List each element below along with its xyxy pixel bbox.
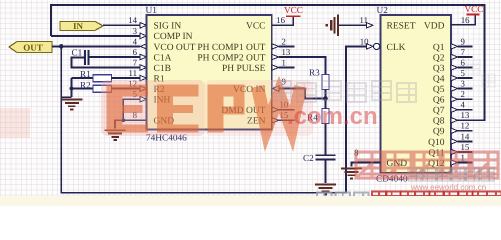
pin number 16 U2: [461, 15, 470, 25]
pin number 5: [133, 89, 138, 99]
pin number 8 U2: [354, 147, 359, 157]
svg-text:5: 5: [461, 68, 466, 78]
svg-text:6: 6: [133, 47, 138, 57]
svg-text:7: 7: [461, 47, 466, 57]
wire OUT to VCO OUT: [52, 45, 140, 47]
svg-text:15: 15: [461, 142, 470, 152]
watermark fake glyphs: [101, 60, 501, 207]
svg-text:COMP IN: COMP IN: [154, 32, 193, 42]
pin number 16: [276, 15, 285, 25]
svg-text:3: 3: [461, 79, 466, 89]
pin number 10 CLK: [360, 37, 369, 47]
svg-text:3: 3: [133, 26, 138, 36]
svg-text:16: 16: [276, 15, 285, 25]
svg-text:Q9: Q9: [433, 127, 445, 137]
svg-text:OUT: OUT: [23, 43, 43, 53]
svg-text:Q10: Q10: [428, 138, 445, 148]
pin 6 arrow: [140, 54, 147, 59]
ground U2 GND: [341, 168, 362, 180]
pin 14 arrow: [140, 23, 147, 28]
svg-text:4: 4: [133, 36, 138, 46]
wire IN to SIG IN: [103, 24, 140, 26]
wire R2 lead left: [72, 88, 94, 90]
pin 11 arrow: [140, 75, 147, 80]
label R1: [80, 69, 91, 79]
svg-text:2: 2: [282, 36, 286, 46]
wire C1 to C1A pin 6: [89, 56, 140, 58]
earth symbol at RESET: [326, 15, 340, 36]
svg-text:IN: IN: [73, 21, 84, 31]
pin number 11: [129, 68, 137, 78]
wire to COMP IN pin 3: [51, 35, 140, 37]
svg-text:10: 10: [360, 37, 369, 47]
pin number 6: [133, 47, 138, 57]
svg-text:4: 4: [461, 100, 466, 110]
junction node loop filter: [323, 96, 328, 101]
part name 74HC4046: [146, 133, 187, 143]
svg-text:R1: R1: [80, 69, 91, 79]
svg-text:13: 13: [282, 47, 291, 57]
pin number 9: [282, 77, 287, 87]
pin 7 arrow: [140, 65, 147, 70]
svg-text:6: 6: [461, 57, 466, 67]
U2 left pin names: [387, 22, 416, 169]
capacitor C1: [85, 50, 89, 65]
svg-text:9: 9: [461, 36, 466, 46]
wire R1R2 common to ground: [61, 78, 73, 97]
svg-text:12: 12: [461, 121, 470, 131]
U1 left pin names: [154, 22, 196, 127]
counter IC U2 CD4040 box: [381, 15, 452, 173]
svg-text:R3: R3: [309, 68, 320, 78]
resistor R4: [322, 109, 329, 124]
pin number 8: [133, 110, 138, 120]
svg-text:Q4: Q4: [433, 75, 445, 85]
svg-text:7: 7: [133, 57, 138, 67]
svg-text:14: 14: [461, 131, 470, 141]
wire pin 15 stub: [272, 118, 295, 123]
svg-text:1: 1: [282, 57, 286, 67]
wire earth to RESET pin 11: [339, 23, 373, 28]
pin number 2: [282, 36, 286, 46]
wire C2 to ground: [325, 159, 327, 183]
pin number 11: [360, 15, 368, 25]
junction node VCO OUT rail: [59, 44, 64, 49]
svg-text:RESET: RESET: [387, 22, 416, 32]
svg-text:PH COMP1 OUT: PH COMP1 OUT: [197, 43, 265, 53]
pin number 15: [280, 110, 289, 120]
wire R1 to pin 11: [112, 77, 141, 79]
svg-text:Q8: Q8: [433, 117, 445, 127]
U1 right pin names: [197, 22, 265, 127]
wire GND pin 8: [115, 119, 147, 129]
label R4: [307, 112, 318, 122]
wire VDD pin16 to VCC: [451, 15, 475, 25]
pin number 13: [282, 47, 291, 57]
pin number 10: [280, 100, 289, 110]
wire pin 10 stub: [272, 107, 295, 112]
svg-text:C1: C1: [72, 48, 83, 58]
resistor R2: [93, 85, 112, 92]
svg-text:R2: R2: [80, 80, 91, 90]
svg-text:C1B: C1B: [154, 64, 171, 74]
svg-text:Q3: Q3: [433, 64, 445, 74]
capacitor C2: [316, 155, 336, 159]
U2 Q pin numbers: [461, 36, 470, 162]
label C2: [303, 153, 314, 163]
svg-text:VCC: VCC: [465, 4, 484, 14]
U2 Q output pins wires: [451, 44, 485, 166]
svg-text:PH PULSE: PH PULSE: [222, 64, 266, 74]
wire R4 to C2: [325, 124, 327, 156]
wire C1B detour pin 7: [71, 58, 140, 68]
wire U2 GND pin 8: [352, 163, 381, 167]
svg-text:Q6: Q6: [433, 96, 445, 106]
wire pin 13 to R3: [272, 54, 326, 74]
wire node to R4: [325, 98, 327, 108]
svg-text:Q5: Q5: [433, 85, 445, 95]
svg-text:Q1: Q1: [433, 43, 445, 53]
svg-text:11: 11: [360, 15, 368, 25]
svg-text:16: 16: [461, 15, 470, 25]
svg-text:SIG IN: SIG IN: [154, 22, 182, 32]
wire R1 lead left: [72, 77, 94, 79]
op IC U1 74HC4046 box: [147, 15, 272, 130]
pin number 3: [133, 26, 138, 36]
svg-text:CLK: CLK: [387, 43, 406, 53]
wire VCO IN pin 9 to filter: [272, 86, 325, 99]
pin 3 arrow: [140, 33, 147, 38]
label C1: [72, 48, 83, 58]
power VCC U2: [465, 4, 484, 15]
pin number 12: [128, 79, 137, 89]
pin number 7: [133, 57, 138, 67]
svg-text:2: 2: [461, 89, 465, 99]
svg-text:U1: U1: [146, 6, 158, 16]
svg-text:C2: C2: [303, 153, 314, 163]
pin number 14: [128, 15, 137, 25]
svg-text:PH COMP2 OUT: PH COMP2 OUT: [197, 53, 265, 63]
wire feedback Q8 to COMP IN (top route): [51, 5, 485, 120]
port OUT: [9, 42, 52, 53]
designator U1: [146, 6, 158, 16]
svg-text:11: 11: [129, 68, 137, 78]
svg-text:VCO OUT: VCO OUT: [154, 43, 196, 53]
svg-text:VDD: VDD: [424, 22, 445, 32]
svg-text:Q7: Q7: [433, 106, 445, 116]
pin number 1: [282, 57, 286, 67]
resistor R3: [322, 75, 329, 90]
svg-text:VCC: VCC: [284, 5, 303, 15]
ground C2: [315, 184, 336, 196]
pin 5 arrow: [140, 97, 147, 102]
ground left (R1 R2): [61, 99, 82, 111]
ground U1 GND: [105, 129, 126, 141]
U2 right pin names: [424, 22, 445, 169]
svg-text:U2: U2: [377, 6, 389, 16]
wire R2 to pin 12: [112, 88, 141, 90]
part name CD4040: [376, 175, 408, 185]
label R2: [80, 80, 91, 90]
svg-text:13: 13: [461, 110, 470, 120]
power VCC U1: [284, 5, 303, 17]
wire R3 to node: [325, 90, 327, 99]
label R3: [309, 68, 320, 78]
wire pin16 to VCC: [272, 17, 294, 26]
resistor R1: [93, 75, 112, 82]
wire pin 2 stub: [272, 44, 295, 49]
wire feedback VCO OUT to CLK (bottom route): [61, 43, 379, 192]
pin 12 arrow: [140, 86, 147, 91]
port IN: [60, 21, 103, 31]
wire pin 1 stub: [272, 65, 295, 70]
svg-text:14: 14: [128, 15, 137, 25]
designator U2: [377, 6, 389, 16]
wire INH pin 5 to GND net: [123, 99, 140, 120]
svg-text:Q2: Q2: [433, 53, 445, 63]
pin 4 arrow: [140, 44, 147, 49]
svg-text:C1A: C1A: [154, 53, 172, 63]
svg-text:VCC: VCC: [246, 22, 266, 32]
pin number 4: [133, 36, 138, 46]
